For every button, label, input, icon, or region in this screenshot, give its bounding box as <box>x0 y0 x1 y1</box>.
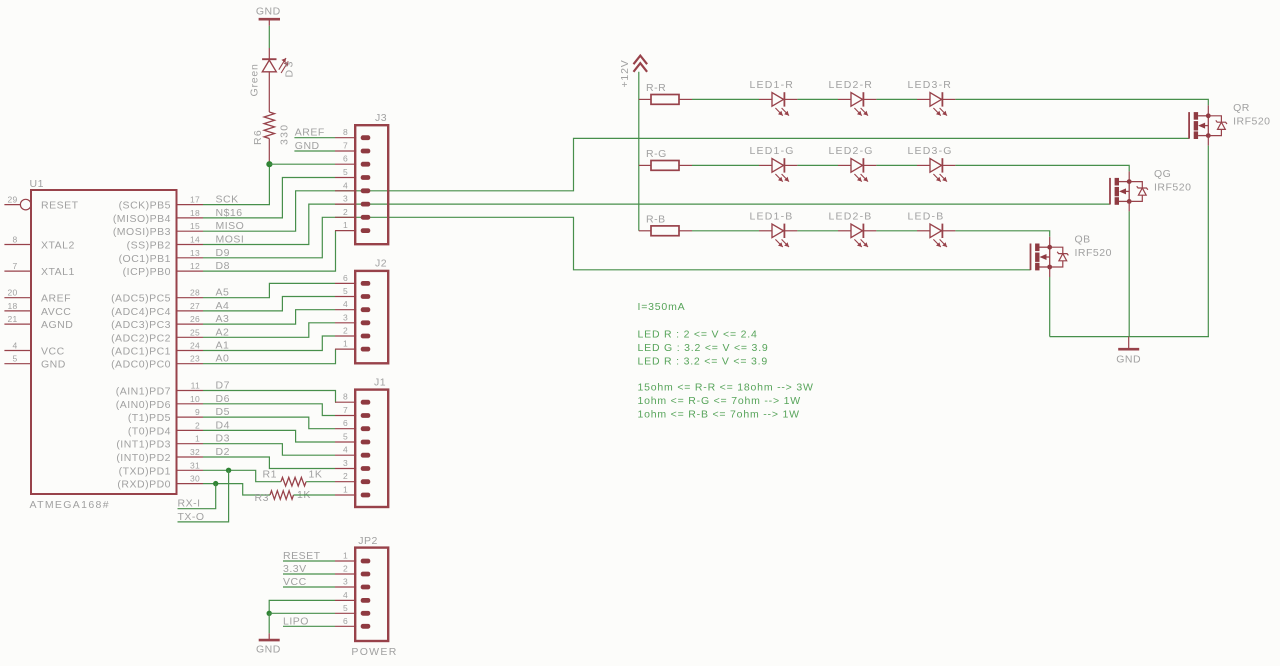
connector J1 pin stubs <box>335 402 356 495</box>
U1 pin 17 (SCK)PB5 stub <box>177 204 204 206</box>
svg-text:4: 4 <box>343 299 348 309</box>
U1 pin 18 AVCC stub <box>4 310 31 312</box>
U1 pin label (MISO)PB4 <box>113 213 171 225</box>
svg-text:VCC: VCC <box>41 346 65 358</box>
wire net MISO (PB3 to J3 pin 4 and QR gate) <box>203 138 1189 231</box>
svg-text:4: 4 <box>343 180 348 190</box>
label J2 name <box>375 258 387 270</box>
U1 pin number 2 <box>195 420 200 430</box>
label net A4 <box>216 300 230 312</box>
svg-text:A2: A2 <box>216 326 230 338</box>
label net AREF <box>295 127 325 139</box>
svg-text:2: 2 <box>343 326 348 336</box>
svg-text:LIPO: LIPO <box>283 615 309 627</box>
U1 pin 9 (T1)PD5 stub <box>177 416 204 418</box>
svg-text:XTAL2: XTAL2 <box>41 240 75 252</box>
wire net D6 (to J1 pin 7) <box>203 404 335 416</box>
wire LED2-B to next LED <box>876 230 917 232</box>
U1 pin 15 (MOSI)PB3 stub <box>177 230 204 232</box>
svg-text:LED G : 3.2 <= V <= 3.9: LED G : 3.2 <= V <= 3.9 <box>638 342 769 354</box>
wire net MOSI (PB2 to J3 pin 3 and QG gate) <box>203 204 1110 244</box>
svg-text:7: 7 <box>12 261 17 271</box>
connector JP2 pin stubs <box>335 561 356 626</box>
label R-R <box>646 82 666 94</box>
U1 pin label (ICP)PB0 <box>123 266 171 278</box>
wire net A3 (to J2 pin 4) <box>203 310 335 324</box>
wire net SCK (PB5 to LED node) <box>203 164 269 204</box>
label net D9 <box>216 247 230 259</box>
U1 pin 31 (TXD)PD1 stub <box>177 469 204 471</box>
diode LED1-R <box>759 92 797 115</box>
wire LED1-G to next LED <box>797 164 838 166</box>
svg-text:(OC1)PB1: (OC1)PB1 <box>119 253 171 265</box>
svg-text:(SCK)PB5: (SCK)PB5 <box>119 200 171 212</box>
svg-text:(INT0)PD2: (INT0)PD2 <box>116 452 171 464</box>
wire net A5 (to J2 pin 6) <box>203 283 335 297</box>
svg-text:3: 3 <box>343 312 348 322</box>
label J1 name <box>374 377 386 389</box>
label +12V <box>619 59 631 87</box>
wire net N$16 (PB4 to J3 pin 5) <box>203 178 335 218</box>
U1 pin label (RXD)PD0 <box>117 479 171 491</box>
svg-text:6: 6 <box>343 154 348 164</box>
label JP2 name <box>358 535 378 547</box>
label net D7 <box>216 380 230 392</box>
ground symbol GND (right) <box>1116 349 1141 365</box>
svg-text:5: 5 <box>12 354 17 364</box>
wire net D3 (to J1 pin 4) <box>203 444 335 456</box>
wire net GND to J3 pin 7 <box>294 150 335 152</box>
svg-text:D8: D8 <box>216 260 230 272</box>
svg-text:6: 6 <box>343 273 348 283</box>
svg-text:10: 10 <box>190 394 200 404</box>
wire net D4 (to J1 pin 5) <box>203 430 335 442</box>
svg-text:D5: D5 <box>216 406 230 418</box>
U1 pin number 14 <box>190 235 200 245</box>
svg-text:4: 4 <box>12 341 17 351</box>
svg-text:18: 18 <box>7 301 17 311</box>
svg-text:13: 13 <box>190 248 200 258</box>
svg-text:32: 32 <box>190 447 200 457</box>
wire JP2 pin 4 to GND node <box>269 600 335 613</box>
svg-text:2: 2 <box>195 420 200 430</box>
svg-text:R1: R1 <box>263 469 277 481</box>
svg-text:(ADC2)PC2: (ADC2)PC2 <box>111 332 171 344</box>
svg-text:QG: QG <box>1154 168 1171 180</box>
svg-text:3: 3 <box>343 577 348 587</box>
U1 pin number 18 <box>7 301 17 311</box>
svg-text:QB: QB <box>1075 234 1091 246</box>
U1 pin number 27 <box>190 301 200 311</box>
svg-text:7: 7 <box>343 141 348 151</box>
svg-text:D3: D3 <box>284 59 296 77</box>
svg-text:(AIN0)PD6: (AIN0)PD6 <box>116 399 171 411</box>
svg-text:I=350mA: I=350mA <box>638 301 686 313</box>
U1 pin number 21 <box>7 314 17 324</box>
U1 pin number 5 <box>12 354 17 364</box>
diode LED2-B <box>838 224 876 247</box>
wire R-B to LED1-B <box>679 230 759 232</box>
U1 pin label (T0)PD4 <box>128 425 171 437</box>
svg-text:GND: GND <box>1116 354 1141 366</box>
U1 pin number 23 <box>190 354 200 364</box>
U1 pin 14 (SS)PB2 stub <box>177 244 204 246</box>
svg-text:1: 1 <box>343 339 348 349</box>
ground symbol GND (below JP2) <box>256 640 281 655</box>
U1 pin 24 (ADC1)PC1 stub <box>177 350 204 352</box>
connector J1 <box>355 390 388 507</box>
wire net A4 (to J2 pin 5) <box>203 297 335 311</box>
svg-text:5: 5 <box>343 432 348 442</box>
svg-text:21: 21 <box>7 314 17 324</box>
wire LED row B to QB drain <box>955 231 1049 247</box>
U1 pin number 20 <box>7 288 17 298</box>
svg-text:LED1-B: LED1-B <box>750 210 794 222</box>
U1 pin number 18 <box>190 208 200 218</box>
label D3 value Green <box>249 63 261 96</box>
U1 pin number 29 <box>7 195 17 205</box>
svg-text:24: 24 <box>190 341 200 351</box>
label net A0 <box>216 353 230 365</box>
svg-text:GND: GND <box>295 140 320 152</box>
svg-text:330: 330 <box>279 124 291 145</box>
svg-text:(INT1)PD3: (INT1)PD3 <box>116 439 171 451</box>
label net VCC <box>283 576 307 588</box>
svg-text:28: 28 <box>190 288 200 298</box>
U1 pin label GND <box>41 359 66 371</box>
U1 pin label (AIN0)PD6 <box>116 399 171 411</box>
svg-text:A3: A3 <box>216 313 230 325</box>
resistor R-R <box>651 95 679 105</box>
U1 pin number 7 <box>12 261 17 271</box>
wire GND rail (right) <box>1050 336 1209 338</box>
label net RX-I <box>178 498 201 510</box>
svg-text:20: 20 <box>7 288 17 298</box>
U1 pin label (ADC0)PC0 <box>111 359 171 371</box>
svg-text:6: 6 <box>343 616 348 626</box>
U1 pin label (AIN1)PD7 <box>116 386 171 398</box>
U1 pin number 10 <box>190 394 200 404</box>
label U1 name <box>30 178 44 190</box>
U1 pin label XTAL2 <box>41 240 75 252</box>
wire GND node down to ground <box>268 613 270 640</box>
svg-text:3: 3 <box>343 194 348 204</box>
U1 pin label (SS)PB2 <box>127 240 171 252</box>
wire +12V rail <box>638 72 640 231</box>
svg-text:14: 14 <box>190 235 200 245</box>
label net TX-O <box>178 511 205 523</box>
U1 pin 2 (T0)PD4 stub <box>177 429 204 431</box>
label net A2 <box>216 326 230 338</box>
svg-text:A4: A4 <box>216 300 230 312</box>
svg-text:Green: Green <box>249 63 261 96</box>
wire JP2 pin 5 to GND node <box>269 612 335 614</box>
U1 pin label XTAL1 <box>41 266 75 278</box>
wire QG source to GND rail <box>1128 201 1130 336</box>
U1 pin 25 (ADC2)PC2 stub <box>177 336 204 338</box>
diode LED1-G <box>759 158 797 181</box>
svg-text:27: 27 <box>190 301 200 311</box>
svg-text:(ADC0)PC0: (ADC0)PC0 <box>111 359 171 371</box>
label net SCK <box>216 194 239 206</box>
label LED2-G <box>829 145 874 157</box>
U1 pin number 8 <box>12 235 17 245</box>
label net A3 <box>216 313 230 325</box>
resistor R-B <box>651 226 679 236</box>
label U1 value ATMEGA168# <box>30 499 110 511</box>
svg-text:D2: D2 <box>216 446 230 458</box>
power symbol +12V <box>634 56 648 72</box>
svg-text:R-G: R-G <box>646 148 667 160</box>
junction dot JP2 GND node <box>267 611 272 616</box>
U1 pin 32 (INT0)PD2 stub <box>177 456 204 458</box>
connector J3 <box>355 125 388 244</box>
svg-text:J2: J2 <box>375 258 387 270</box>
svg-text:1K: 1K <box>309 469 323 481</box>
svg-text:A1: A1 <box>216 340 230 352</box>
label QR name <box>1233 102 1250 114</box>
U1 pin number 1 <box>195 434 200 444</box>
wire R3 to J1 pin 1 <box>294 494 336 496</box>
svg-text:15ohm <= R-R <= 18ohm --> 3W: 15ohm <= R-R <= 18ohm --> 3W <box>638 382 814 394</box>
svg-text:(ADC1)PC1: (ADC1)PC1 <box>111 346 171 358</box>
diode LED2-R <box>838 92 876 115</box>
U1 pin number 17 <box>190 195 200 205</box>
U1 pin 7 XTAL1 stub <box>4 270 31 272</box>
wire GND rail to ground symbol <box>1128 337 1130 350</box>
resistor R-R stub from rail <box>639 98 651 100</box>
svg-text:ATMEGA168#: ATMEGA168# <box>30 499 110 511</box>
label R-G <box>646 148 667 160</box>
wire QR source to GND rail <box>1207 136 1209 337</box>
svg-text:1: 1 <box>343 551 348 561</box>
svg-text:RX-I: RX-I <box>178 498 201 510</box>
U1 pin number 12 <box>190 261 200 271</box>
U1 pin label (ADC3)PC3 <box>111 319 171 331</box>
svg-text:5: 5 <box>343 286 348 296</box>
svg-text:D4: D4 <box>216 419 230 431</box>
label LED1-R <box>750 79 795 91</box>
label net D2 <box>216 446 230 458</box>
label net N$16 <box>216 207 243 219</box>
wire net RX-I to PD0 <box>178 484 216 509</box>
U1 pin label (OC1)PB1 <box>119 253 171 265</box>
svg-text:QR: QR <box>1233 102 1250 114</box>
svg-text:R-B: R-B <box>646 213 666 225</box>
wire net LIPO to JP2 pin 6 <box>283 625 335 627</box>
U1 pin 23 (ADC0)PC0 stub <box>177 363 204 365</box>
U1 pin 13 (OC1)PB1 stub <box>177 257 204 259</box>
connector J3 pin stubs <box>335 138 356 231</box>
U1 pin 1 (INT1)PD3 stub <box>177 443 204 445</box>
label net A5 <box>216 287 230 299</box>
wire net D8 (PB0 to J3 pin 1) <box>203 231 336 272</box>
wire net D5 (to J1 pin 6) <box>203 417 335 429</box>
transistor QR <box>1189 112 1227 139</box>
wire node to J3 pin 6 <box>269 163 335 165</box>
U1 pin label (INT0)PD2 <box>116 452 171 464</box>
U1 pin 12 (ICP)PB0 stub <box>177 270 204 272</box>
label net LIPO <box>283 615 309 627</box>
ground symbol GND (top, above D3) <box>256 6 281 20</box>
svg-text:D6: D6 <box>216 393 230 405</box>
U1 pin 21 AGND stub <box>4 323 31 325</box>
note text: I=350mA <box>638 301 686 313</box>
svg-text:J3: J3 <box>375 112 387 124</box>
transistor QG <box>1110 178 1148 205</box>
svg-text:GND: GND <box>256 644 281 656</box>
svg-text:4: 4 <box>343 590 348 600</box>
U1 pin 20 AREF stub <box>4 297 31 299</box>
U1 pin label VCC <box>41 346 65 358</box>
svg-text:(AIN1)PD7: (AIN1)PD7 <box>116 386 171 398</box>
diode LED-B <box>917 224 955 247</box>
svg-text:N$16: N$16 <box>216 207 243 219</box>
wire net 3.3V to JP2 pin 2 <box>283 573 335 575</box>
U1 pin number 26 <box>190 314 200 324</box>
svg-text:AVCC: AVCC <box>41 306 71 318</box>
svg-text:18: 18 <box>190 208 200 218</box>
U1 pin number 24 <box>190 341 200 351</box>
svg-text:R-R: R-R <box>646 82 666 94</box>
svg-text:7: 7 <box>343 405 348 415</box>
svg-text:TX-O: TX-O <box>178 511 205 523</box>
svg-text:LED3-G: LED3-G <box>908 145 953 157</box>
svg-text:2: 2 <box>343 564 348 574</box>
junction dot on RXD net <box>213 481 218 486</box>
U1 pin 28 (ADC5)PC5 stub <box>177 297 204 299</box>
svg-text:AREF: AREF <box>295 127 325 139</box>
label net D8 <box>216 260 230 272</box>
U1 pin 29 RESET stub <box>4 199 31 210</box>
diode LED3-G <box>917 158 955 181</box>
wire net VCC to JP2 pin 3 <box>283 586 335 588</box>
wire QB source to GND rail <box>1049 267 1051 337</box>
svg-text:LED2-G: LED2-G <box>829 145 874 157</box>
U1 pin label (ADC2)PC2 <box>111 332 171 344</box>
connector J2 <box>355 271 388 363</box>
label QG name <box>1154 168 1171 180</box>
transistor QB <box>1031 244 1069 271</box>
svg-text:AGND: AGND <box>41 319 73 331</box>
svg-text:6: 6 <box>343 418 348 428</box>
svg-text:AREF: AREF <box>41 293 71 305</box>
U1 pin label (ADC1)PC1 <box>111 346 171 358</box>
wire LED1-B to next LED <box>797 230 838 232</box>
wire LED2-G to next LED <box>876 164 917 166</box>
wire net A0 (to J2 pin 1) <box>203 349 336 364</box>
wire LED row G to QG drain <box>955 165 1129 181</box>
svg-text:LED2-R: LED2-R <box>829 79 874 91</box>
U1 pin number 11 <box>191 381 200 391</box>
wire LED1-R to next LED <box>797 98 838 100</box>
svg-text:5: 5 <box>343 167 348 177</box>
svg-text:POWER: POWER <box>351 646 397 658</box>
U1 pin 26 (ADC3)PC3 stub <box>177 323 204 325</box>
U1 pin 4 VCC stub <box>4 350 31 352</box>
LED D3 <box>262 58 288 73</box>
svg-text:3.3V: 3.3V <box>283 563 307 575</box>
svg-text:1: 1 <box>343 485 348 495</box>
svg-text:A0: A0 <box>216 353 230 365</box>
wire net AREF to J3 pin 8 <box>294 137 335 139</box>
svg-text:LED1-G: LED1-G <box>750 145 795 157</box>
wire GND to D3 cathode <box>268 19 270 59</box>
wire net RXD (PD0) to R3 <box>203 484 270 495</box>
svg-text:11: 11 <box>191 381 200 391</box>
svg-text:25: 25 <box>190 327 200 337</box>
wire D3 anode to R6 <box>268 72 270 112</box>
svg-text:D7: D7 <box>216 380 230 392</box>
wire LED row R to QR drain <box>955 99 1208 115</box>
svg-text:3: 3 <box>343 458 348 468</box>
label QG value IRF520 <box>1154 181 1191 193</box>
svg-text:30: 30 <box>190 474 200 484</box>
svg-text:1: 1 <box>195 434 200 444</box>
wire net D9 (PB1 to J3 pin 2 and QB gate) <box>203 217 1031 269</box>
wire net TX-O to PD1 <box>178 470 229 522</box>
svg-text:D9: D9 <box>216 247 230 259</box>
svg-text:(ICP)PB0: (ICP)PB0 <box>123 266 171 278</box>
svg-text:(TXD)PD1: (TXD)PD1 <box>119 465 171 477</box>
note text: LED G : 3.2 <= V <= 3.9 <box>638 342 769 354</box>
svg-text:A5: A5 <box>216 287 230 299</box>
U1 pin label RESET <box>41 200 79 212</box>
svg-text:LED R : 3.2 <= V <= 3.9: LED R : 3.2 <= V <= 3.9 <box>638 355 768 367</box>
svg-text:LED3-R: LED3-R <box>908 79 953 91</box>
U1 pin label AREF <box>41 293 71 305</box>
svg-text:R6: R6 <box>252 129 264 145</box>
svg-text:9: 9 <box>195 407 200 417</box>
label net MISO <box>216 220 245 232</box>
U1 pin label AGND <box>41 319 73 331</box>
U1 pin number 32 <box>190 447 200 457</box>
svg-text:8: 8 <box>343 127 348 137</box>
wire net RESET to JP2 pin 1 <box>283 560 335 562</box>
resistor R1 <box>281 477 306 486</box>
diode LED3-R <box>917 92 955 115</box>
svg-text:RESET: RESET <box>41 200 79 212</box>
diode LED1-B <box>759 224 797 247</box>
svg-text:(ADC5)PC5: (ADC5)PC5 <box>111 293 171 305</box>
resistor R-G <box>651 161 679 171</box>
label LED1-G <box>750 145 795 157</box>
label QB value IRF520 <box>1075 247 1112 259</box>
svg-text:1ohm <= R-B <= 7ohm --> 1W: 1ohm <= R-B <= 7ohm --> 1W <box>638 408 800 420</box>
U1 pin label (ADC4)PC4 <box>111 306 171 318</box>
svg-text:1ohm <= R-G <= 7ohm --> 1W: 1ohm <= R-G <= 7ohm --> 1W <box>638 395 801 407</box>
svg-text:GND: GND <box>41 359 66 371</box>
svg-text:MISO: MISO <box>216 220 245 232</box>
junction dot on TXD net <box>226 468 231 473</box>
U1 pin label (MOSI)PB3 <box>113 226 171 238</box>
note text: LED R : 3.2 <= V <= 3.9 <box>638 355 768 367</box>
label R6 value 330 <box>279 124 291 145</box>
label LED2-B <box>829 210 873 222</box>
label R3 value 1K <box>297 489 311 501</box>
U1 pin number 30 <box>190 474 200 484</box>
svg-text:8: 8 <box>12 235 17 245</box>
node N$16 junction dot <box>266 161 272 167</box>
label net GND (J3 pin7) <box>295 140 320 152</box>
U1 pin label (T1)PD5 <box>128 412 171 424</box>
U1 pin number 9 <box>195 407 200 417</box>
U1 pin 5 GND stub <box>4 363 31 365</box>
label J3 name <box>375 112 387 124</box>
U1 pin number 25 <box>190 327 200 337</box>
resistor R6 <box>264 112 274 139</box>
svg-text:(ADC4)PC4: (ADC4)PC4 <box>111 306 171 318</box>
